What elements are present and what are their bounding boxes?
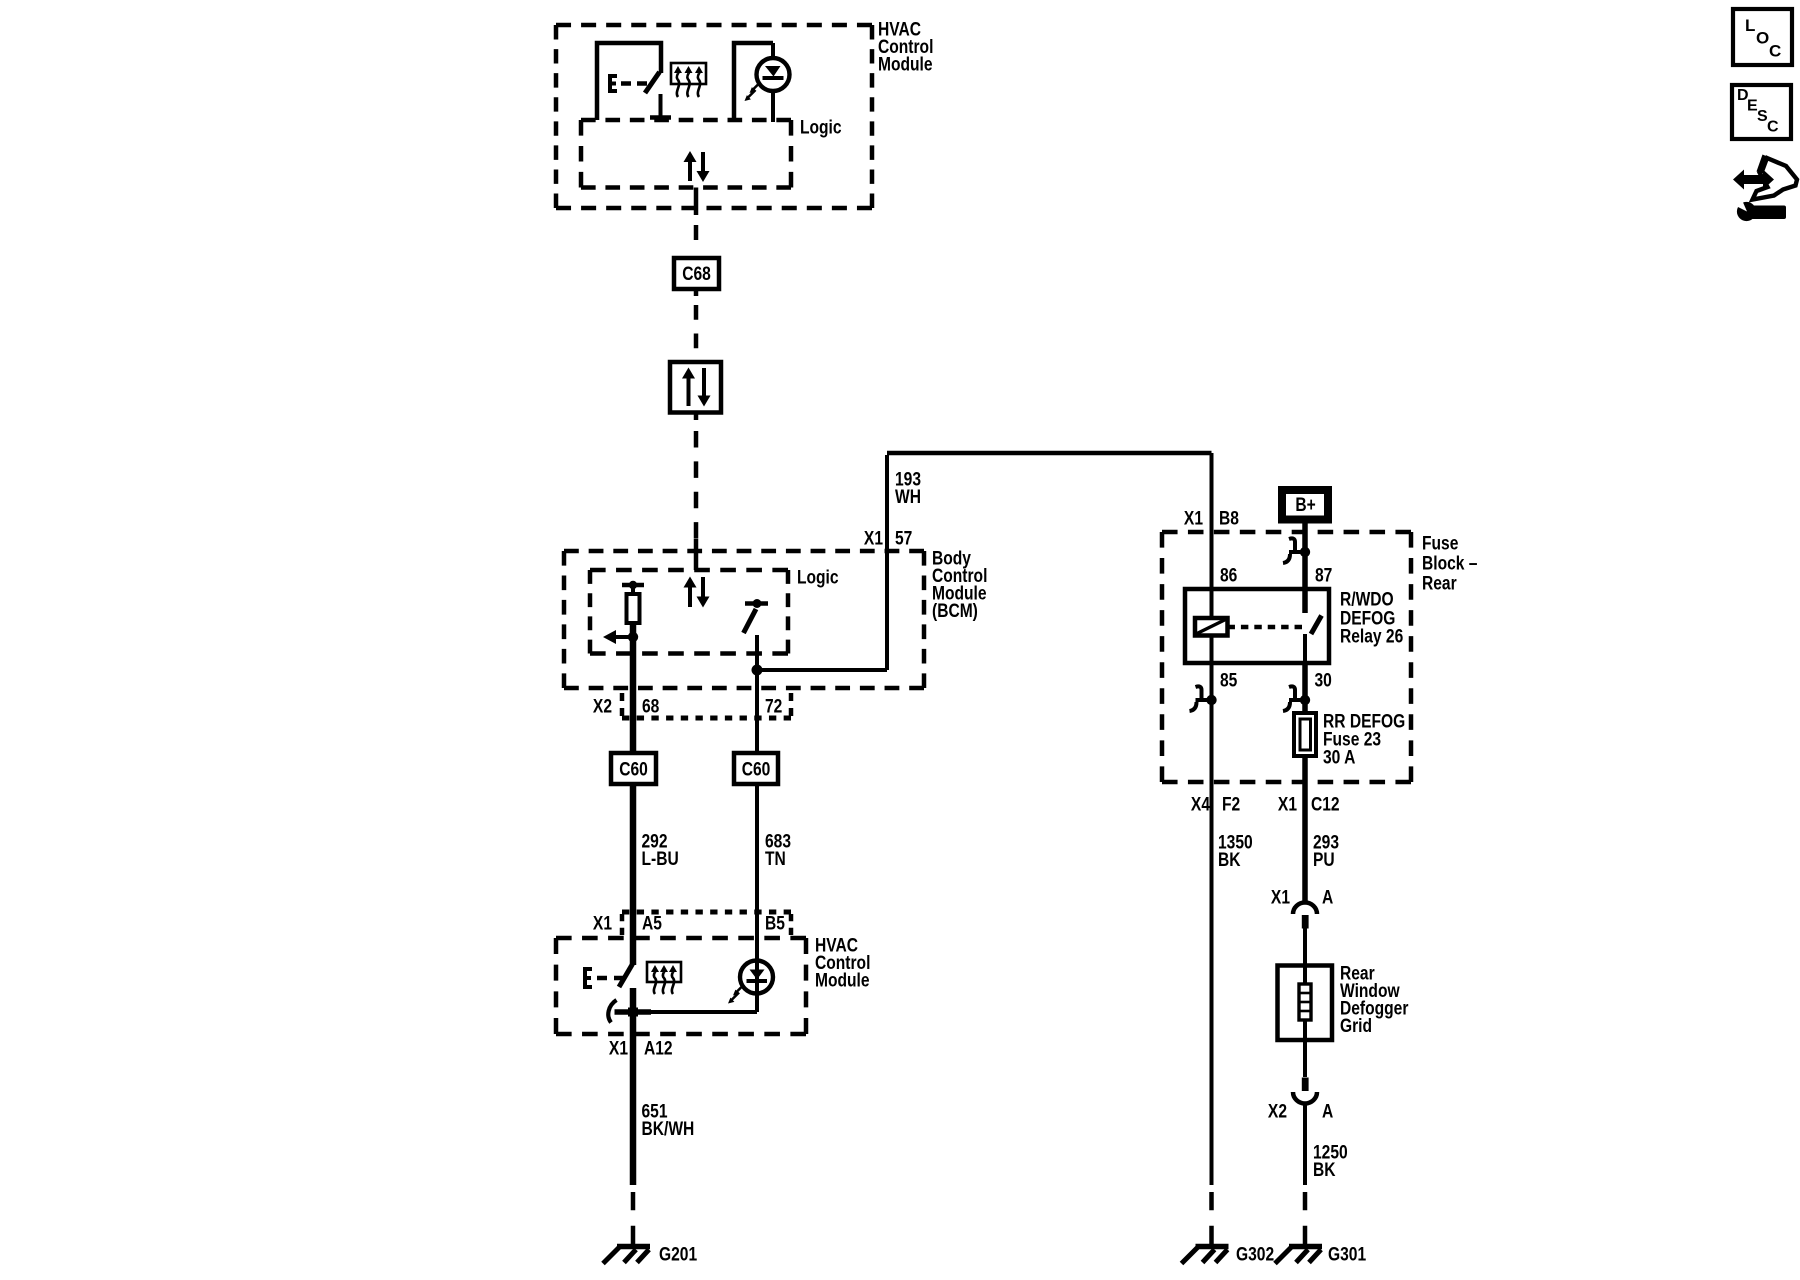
- pin label: A5: [642, 912, 662, 934]
- pin label: 30: [1315, 669, 1333, 691]
- pin label: A12: [644, 1037, 673, 1059]
- module box: HVAC Control Module (top): [556, 25, 872, 208]
- switch: defog request switch (bottom HVAC): [585, 964, 633, 989]
- svg-text:C: C: [1769, 42, 1781, 61]
- label: circuit 292 L-BU: [642, 830, 679, 870]
- data link communication symbol: [670, 362, 721, 413]
- fuse: RR DEFOG Fuse 23 30 A: [1294, 713, 1316, 756]
- component: Rear Window Defogger Grid: [1278, 966, 1333, 1041]
- switch: defogger request switch E (top HVAC): [597, 43, 671, 120]
- label: R/WDO DEFOG Relay 26: [1340, 588, 1403, 647]
- pin label: 68: [642, 695, 660, 717]
- LED indicator (bottom HVAC): [728, 961, 773, 1004]
- label: HVAC Control Module (bottom): [815, 934, 870, 991]
- svg-text:B8: B8: [1219, 507, 1239, 529]
- pin label: X2: [593, 695, 612, 717]
- label: circuit 193 WH: [895, 468, 921, 508]
- svg-text:Logic: Logic: [797, 566, 839, 588]
- terminal clamp at pin 85: [1190, 686, 1217, 711]
- svg-text:TN: TN: [765, 847, 786, 869]
- inline connector X1-A (grid): [1293, 903, 1317, 929]
- pin label: X4 F2: [1191, 793, 1240, 815]
- icon: LOC button: [1733, 9, 1792, 65]
- svg-text:C12: C12: [1311, 793, 1340, 815]
- svg-text:X1: X1: [609, 1037, 628, 1059]
- wire 293 PU: fuse to defogger grid: [1302, 782, 1308, 903]
- label: Body Control Module (BCM): [932, 547, 987, 622]
- svg-text:X2: X2: [1268, 1100, 1287, 1122]
- wire: dashed data link to BCM (serial data): [694, 413, 699, 571]
- svg-text:A: A: [1322, 1100, 1333, 1122]
- pin label: X1 C12: [1278, 793, 1340, 815]
- wire: connector to grid: [1303, 928, 1307, 984]
- svg-text:Module: Module: [815, 969, 870, 991]
- svg-text:57: 57: [895, 527, 913, 549]
- svg-text:G201: G201: [659, 1243, 697, 1265]
- icon: rear defog heater indicator (bottom HVAC): [647, 962, 681, 994]
- logic box (BCM): [590, 570, 788, 654]
- wire: BCM switch to junction: [755, 635, 759, 670]
- svg-text:X1: X1: [1271, 886, 1290, 908]
- relay: R/WDO DEFOG Relay 26: [1185, 589, 1329, 663]
- relay actuation dashed link: [1228, 625, 1303, 630]
- pin label: 87: [1315, 564, 1333, 586]
- svg-text:C: C: [1767, 119, 1779, 136]
- svg-text:85: 85: [1220, 669, 1238, 691]
- label: HVAC Control Module (top): [878, 18, 933, 75]
- module box: Fuse Block - Rear: [1162, 532, 1411, 782]
- svg-text:PU: PU: [1313, 848, 1335, 870]
- icon: rear defog heater indicator (top HVAC): [671, 63, 706, 97]
- ground G301: [1275, 1247, 1322, 1264]
- svg-text:Logic: Logic: [800, 116, 842, 138]
- wire: HVAC A12 output (thick): [630, 988, 637, 1034]
- wire 683 TN: C60 to HVAC B5: [755, 784, 759, 962]
- svg-text:G301: G301: [1328, 1243, 1366, 1265]
- svg-text:Block –: Block –: [1422, 552, 1478, 574]
- svg-text:BK: BK: [1218, 848, 1241, 870]
- wire: pin 86 into relay coil: [1210, 532, 1214, 618]
- svg-text:87: 87: [1315, 564, 1333, 586]
- pin label: X1 / A (grid top): [1271, 886, 1334, 908]
- svg-text:X1: X1: [593, 912, 612, 934]
- label: circuit 683 TN: [765, 830, 791, 870]
- wire: B+ to relay pin 87: [1302, 524, 1308, 614]
- label: Rear Window Defogger Grid: [1340, 962, 1409, 1037]
- ground G302: [1182, 1247, 1229, 1264]
- pin label: 72: [765, 695, 783, 717]
- LED indicator (top HVAC): [734, 43, 790, 122]
- svg-text:Rear: Rear: [1422, 572, 1457, 594]
- svg-text:B5: B5: [765, 912, 785, 934]
- icon: DESC button: [1732, 85, 1791, 139]
- wire: B5 branch through LED to junction (bottom HVAC): [650, 962, 757, 1012]
- label: G301: [1328, 1243, 1366, 1265]
- signal arrow (BCM driver output): [603, 623, 638, 644]
- label: circuit 651 BK/WH: [642, 1100, 695, 1140]
- terminal clamp at pin 30: [1283, 686, 1310, 711]
- svg-text:C60: C60: [742, 758, 771, 780]
- wire: relay pin 30 to fuse: [1302, 663, 1308, 713]
- pin label: 85: [1220, 669, 1238, 691]
- label: circuit 1350 BK: [1218, 831, 1253, 871]
- pin label: B5: [765, 912, 785, 934]
- label: G302: [1236, 1243, 1274, 1265]
- svg-text:30: 30: [1315, 669, 1333, 691]
- svg-text:Grid: Grid: [1340, 1014, 1372, 1036]
- svg-text:G302: G302: [1236, 1243, 1274, 1265]
- svg-text:68: 68: [642, 695, 660, 717]
- svg-text:X1: X1: [1278, 793, 1297, 815]
- wire: serial data out of top HVAC logic: [694, 188, 699, 216]
- connector band: HVAC X1 (A5/B5): [622, 912, 791, 935]
- svg-text:A: A: [1322, 886, 1333, 908]
- icon: wrench: [1733, 196, 1786, 222]
- wire: dashed C68 to data link symbol: [694, 289, 699, 362]
- svg-text:Relay 26: Relay 26: [1340, 625, 1403, 647]
- svg-text:B+: B+: [1295, 493, 1315, 515]
- logic box (top HVAC): [581, 120, 791, 188]
- serial data arrows (BCM logic): [684, 577, 710, 608]
- wire 651 BK/WH: A12 to ground: [630, 1034, 637, 1244]
- wire: junction to BCM pin 72 (to C60): [755, 670, 759, 753]
- wire: BCM pin 68 output (thick): [630, 637, 637, 753]
- icon: wiring navigation arrows: [1733, 155, 1797, 200]
- momentary contact arc (bottom HVAC switch): [608, 1000, 616, 1023]
- pin label: X1 (HVAC top): [593, 912, 612, 934]
- driver output with resistor (BCM): [622, 581, 644, 594]
- label: Logic (BCM): [797, 566, 839, 588]
- label: Logic (top HVAC): [800, 116, 842, 138]
- connector C60 (left): [611, 753, 656, 784]
- connector band: BCM X2: [622, 693, 791, 718]
- svg-text:30 A: 30 A: [1323, 746, 1356, 768]
- svg-text:C68: C68: [682, 262, 711, 284]
- serial data arrows (top HVAC logic): [684, 151, 710, 182]
- pin label: BCM X1 57: [864, 527, 913, 549]
- wire: dashed serial data to C68: [694, 225, 699, 258]
- svg-text:A5: A5: [642, 912, 662, 934]
- resistor (BCM driver): [627, 594, 640, 623]
- switch: relay driver switch (BCM logic): [744, 599, 769, 633]
- label: circuit 1250 BK: [1313, 1141, 1348, 1181]
- pin label: X1 B8: [1184, 507, 1239, 529]
- svg-text:BK: BK: [1313, 1158, 1336, 1180]
- wire: grid to connector X2-A: [1303, 1020, 1307, 1077]
- pin label: X2 / A (grid bottom): [1268, 1100, 1334, 1122]
- module box: Body Control Module (BCM): [564, 551, 924, 688]
- wire 193 WH: junction to pin 57, up and over to fuse block: [757, 453, 1212, 670]
- svg-text:L: L: [1745, 16, 1755, 35]
- label: Fuse Block - Rear: [1422, 532, 1478, 594]
- module box: HVAC Control Module (bottom): [556, 938, 806, 1034]
- inline connector X2-A (grid bottom): [1293, 1078, 1317, 1104]
- connector C68: [674, 258, 719, 289]
- relay switch blade: [1305, 616, 1322, 664]
- wire 1350 BK: fuse block to ground: [1210, 782, 1214, 1244]
- svg-text:O: O: [1756, 29, 1769, 48]
- battery feed B+: [1282, 490, 1328, 520]
- connector C60 (right): [734, 753, 778, 784]
- svg-text:72: 72: [765, 695, 783, 717]
- label: RR DEFOG Fuse 23 30 A: [1323, 710, 1405, 768]
- label: circuit 293 PU: [1313, 831, 1339, 871]
- relay coil: [1195, 618, 1228, 636]
- wire 1250 BK: grid to ground: [1303, 1104, 1307, 1245]
- svg-text:L-BU: L-BU: [642, 847, 679, 869]
- svg-text:WH: WH: [895, 485, 921, 507]
- wire: relay coil to pin 85: [1210, 636, 1214, 783]
- svg-text:Fuse: Fuse: [1422, 532, 1459, 554]
- svg-text:X1: X1: [864, 527, 883, 549]
- svg-text:(BCM): (BCM): [932, 599, 978, 621]
- svg-text:X1: X1: [1184, 507, 1203, 529]
- svg-text:86: 86: [1220, 564, 1238, 586]
- svg-text:BK/WH: BK/WH: [642, 1117, 695, 1139]
- junction: BCM pin 72 / pin 57 node: [752, 665, 763, 676]
- pin label: X1 (HVAC bottom): [609, 1037, 628, 1059]
- svg-text:X4: X4: [1191, 793, 1210, 815]
- terminal clamp at B+ feed: [1283, 538, 1310, 563]
- svg-text:Module: Module: [878, 53, 933, 75]
- svg-text:X2: X2: [593, 695, 612, 717]
- label: G201: [659, 1243, 697, 1265]
- switch lower contact bar (bottom HVAC): [615, 1008, 652, 1017]
- ground G201: [603, 1247, 650, 1264]
- wire 292 L-BU: C60 to HVAC A5 (thick): [630, 784, 637, 965]
- svg-text:A12: A12: [644, 1037, 673, 1059]
- wire: fuse to block edge: [1302, 756, 1308, 782]
- pin label: 86: [1220, 564, 1238, 586]
- svg-text:C60: C60: [619, 758, 648, 780]
- svg-text:F2: F2: [1222, 793, 1240, 815]
